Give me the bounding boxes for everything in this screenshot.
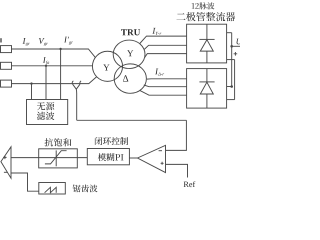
- wire tap C down: [31, 84, 33, 100]
- wire tap A down: [60, 49, 62, 100]
- label lvbo 滤波: [37, 112, 55, 120]
- sawtooth generator box: [39, 183, 66, 195]
- wire sensor down: [75, 89, 77, 120]
- source box phase B: [1, 62, 12, 69]
- label title erjiguanzhengliuqi 二极管整流器: [177, 12, 236, 21]
- label Y secondary: [127, 50, 133, 56]
- diode D2 lead bottom: [206, 94, 208, 108]
- source lead tick top-left: [0, 38, 2, 42]
- label Vgr: [39, 38, 48, 46]
- label bihuankongzhi 闭环控制: [95, 137, 128, 145]
- junction node line1 tap: [59, 48, 61, 50]
- saturation symbol curve: [45, 151, 67, 164]
- wire feedback riser to error amp minus: [166, 120, 187, 150]
- rectifier bridge box top: [187, 24, 227, 63]
- sawtooth symbol: [45, 187, 57, 192]
- wire dc minus stub bottom: [227, 99, 235, 101]
- label Igr: [23, 38, 30, 46]
- diode D1 lead top: [206, 24, 208, 39]
- junction node line3 tap: [30, 82, 32, 84]
- wire dc minus stub top: [227, 59, 235, 61]
- error amp triangle: [138, 145, 166, 172]
- plus sign dc output: [234, 52, 238, 56]
- label title 12maibo 12脉波: [192, 2, 215, 9]
- label Udc: [237, 39, 247, 46]
- label IY-r: [152, 28, 161, 35]
- wire Delta out c: [140, 90, 187, 95]
- wire phase B: [12, 65, 93, 67]
- junction node dc plus: [230, 45, 233, 48]
- fuzzy PI box 模糊PI: [87, 149, 129, 165]
- wire Y2 out a: [140, 36, 187, 43]
- diode D1 cathode bar: [199, 38, 214, 40]
- error amp minus sign: [159, 150, 162, 152]
- current sensor tick right: [80, 81, 81, 84]
- wire sawtooth to comparator: [11, 173, 39, 191]
- wire Delta out b: [144, 85, 187, 87]
- wire dc plus stub: [227, 32, 232, 34]
- label ID-r: [155, 69, 164, 76]
- transformer secondary Delta: [114, 64, 146, 93]
- error amp plus sign: [161, 162, 164, 165]
- diode D2 triangle: [200, 82, 213, 94]
- wire dc plus out: [232, 45, 240, 47]
- wire feedback horizontal: [77, 119, 187, 121]
- label wuyuan 无源: [37, 102, 54, 110]
- comparator minus sign: [4, 171, 8, 173]
- wire phase C: [12, 77, 97, 84]
- label juchibo 锯齿波: [73, 185, 98, 193]
- label mohuPI 模糊PI: [98, 153, 124, 161]
- wire Y2 out c: [145, 54, 187, 58]
- comparator plus sign: [3, 156, 6, 159]
- label Y primary: [103, 65, 109, 71]
- anti-windup saturation box: [39, 149, 78, 168]
- saturation symbol axis vertical: [55, 150, 57, 166]
- label Ref: [184, 181, 196, 187]
- wire tap B down: [45, 66, 47, 100]
- current sensor pickup V: [73, 84, 80, 89]
- rectifier bridge box bottom: [187, 69, 227, 109]
- label I'gr: [64, 37, 73, 45]
- diode D1 triangle: [200, 40, 213, 51]
- source box phase C: [1, 80, 12, 87]
- junction node line2 tap: [45, 65, 47, 67]
- wire bus A to lower bridge: [227, 86, 232, 88]
- passive filter box 无源滤波: [27, 100, 68, 125]
- wire comparator to fuzzy PI through saturation box: [11, 157, 87, 159]
- wire Y2 out b: [144, 45, 186, 49]
- wire dc bus B: [234, 60, 236, 100]
- transformer primary Y1: [92, 51, 122, 81]
- label Ifa: [43, 57, 49, 65]
- current sensor tick left: [72, 81, 73, 84]
- wire Delta out a: [147, 78, 187, 80]
- diode D2 lead top: [206, 69, 208, 82]
- transformer secondary Y2: [113, 40, 145, 69]
- label TRU: [121, 29, 140, 35]
- label kangbaohe 抗饱和: [45, 138, 72, 146]
- junction node dc mid: [230, 85, 233, 88]
- label Delta secondary: [123, 75, 128, 81]
- diode D1 lead bottom: [206, 51, 208, 63]
- comparator PWM triangle: [1, 147, 11, 178]
- diode D2 cathode bar: [199, 81, 214, 83]
- wire dc bus A: [231, 33, 233, 87]
- wire phase A: [12, 49, 96, 58]
- source box phase A: [1, 46, 12, 53]
- wire error amp to fuzzy PI: [129, 157, 137, 159]
- wire ref to error amp plus: [166, 164, 188, 177]
